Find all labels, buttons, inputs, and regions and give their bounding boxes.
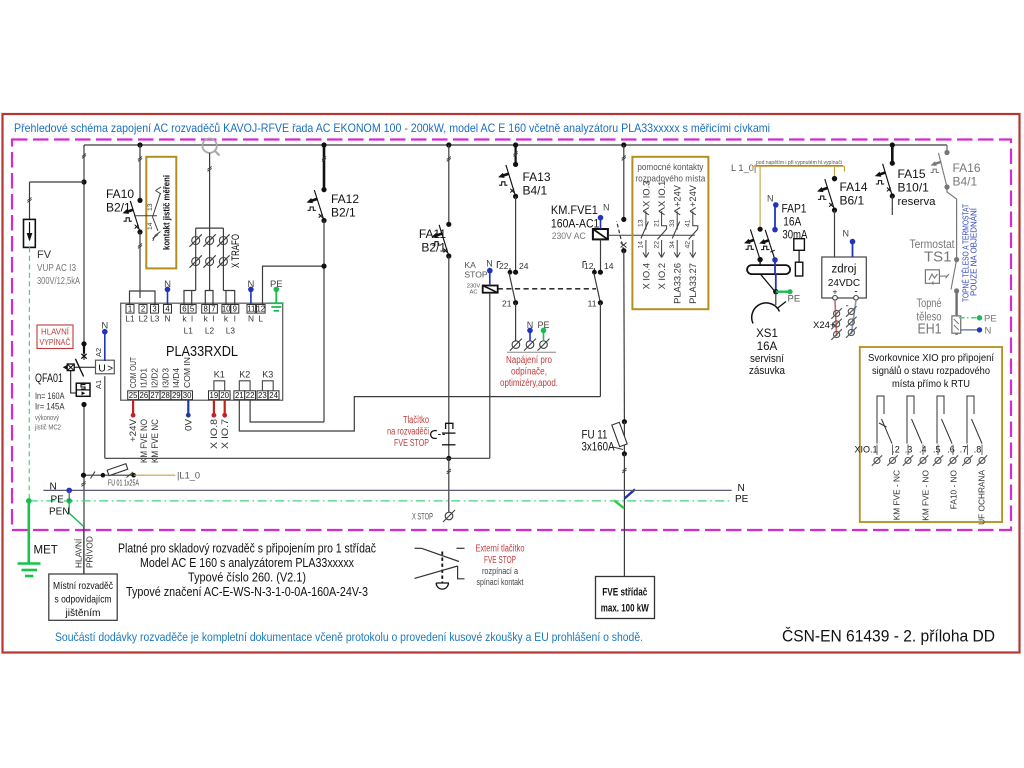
terminal row PLA33 bottom (pins 25-30) xyxy=(128,391,193,400)
mechanical link KA to contacts (dashed) xyxy=(498,288,596,290)
svg-text:27: 27 xyxy=(150,391,159,400)
svg-text:L2: L2 xyxy=(205,326,215,336)
contact XIO 4 xyxy=(967,396,982,444)
pin labels L1 L2 L3 (CT inputs) xyxy=(184,326,236,336)
svg-text:reserva: reserva xyxy=(898,196,937,208)
boundary of switchboard (magenta dashed) xyxy=(12,140,1011,531)
wire PE tap to inverter (green) xyxy=(614,500,624,508)
svg-text:.2: .2 xyxy=(892,445,900,455)
svg-text:FA16: FA16 xyxy=(953,161,981,175)
svg-text:KM FVE NC: KM FVE NC xyxy=(150,419,161,463)
wire 0V from pin 30 xyxy=(187,400,189,413)
svg-text:6: 6 xyxy=(182,305,186,314)
heating element EH1 xyxy=(952,316,961,333)
svg-text:34: 34 xyxy=(669,241,676,249)
wire N to FAP1 xyxy=(774,205,776,230)
pin labels COM OUT I/O xyxy=(129,357,192,388)
svg-text:B2/1: B2/1 xyxy=(331,206,356,220)
svg-text:FA12: FA12 xyxy=(331,192,359,206)
external pushbutton FVE STOP symbol xyxy=(415,547,422,549)
svg-text:X TRAFO: X TRAFO xyxy=(230,234,242,268)
svg-text:24: 24 xyxy=(269,391,278,400)
svg-text:L2: L2 xyxy=(139,314,149,324)
wire KM coil to contact 12-14 xyxy=(600,239,602,272)
svg-text:4: 4 xyxy=(165,305,170,314)
contact TS1 xyxy=(951,260,957,290)
wire L1_0 feeder (olive) xyxy=(753,165,845,167)
svg-text:HLAVNÍ: HLAVNÍ xyxy=(41,327,70,337)
wire KA11 down xyxy=(599,303,601,397)
power supply zdroj 24VDC xyxy=(822,257,867,298)
wire N to KM coil xyxy=(600,218,602,229)
node N KA xyxy=(487,268,493,274)
wire FV horizontal xyxy=(30,181,85,183)
svg-text:KA: KA xyxy=(464,260,476,270)
svg-text:PEN: PEN xyxy=(49,507,70,518)
svg-text:X IO.2: X IO.2 xyxy=(657,263,667,289)
svg-text:13: 13 xyxy=(147,203,154,211)
svg-text:X IO.3: X IO.3 xyxy=(641,181,651,207)
svg-text:X STOP: X STOP xyxy=(412,512,433,522)
svg-text:30mA: 30mA xyxy=(782,230,807,242)
svg-text:L1: L1 xyxy=(125,314,135,324)
socket XS1 xyxy=(752,303,780,324)
wire FVE-STOP chain xyxy=(105,457,490,459)
svg-text:KM FVE - NC: KM FVE - NC xyxy=(892,470,902,520)
svg-text:23: 23 xyxy=(258,391,267,400)
node N split xyxy=(66,488,72,494)
node N terminal 4 xyxy=(165,287,171,293)
label napajeni pro odpinace optimizery xyxy=(507,351,556,353)
aux contact 41-42 xyxy=(685,184,699,304)
svg-text:Ir= 145A: Ir= 145A xyxy=(35,402,65,412)
ground PE at terminal 12 xyxy=(275,289,277,303)
svg-text:PE: PE xyxy=(984,314,997,325)
svg-text:PLA33RXDL: PLA33RXDL xyxy=(166,344,238,360)
svg-text:N: N xyxy=(985,326,992,337)
svg-text:2: 2 xyxy=(141,305,145,314)
drawing frame xyxy=(3,114,1020,653)
wire KA coil to FVE-STOP node xyxy=(489,293,491,459)
svg-text:K1: K1 xyxy=(214,370,225,380)
relay output K3 xyxy=(262,381,273,391)
svg-text:FU 01 1x25A: FU 01 1x25A xyxy=(108,479,140,488)
svg-text:na rozvaděči: na rozvaděči xyxy=(387,427,429,438)
wire L1_0 to FAP1 xyxy=(759,166,761,226)
wire CT bracket xyxy=(196,227,224,229)
svg-text:41: 41 xyxy=(685,219,692,227)
node PE FV xyxy=(26,498,32,504)
svg-text:B10/1: B10/1 xyxy=(898,181,930,195)
contact XIO 2 xyxy=(907,396,922,444)
svg-text:FA15: FA15 xyxy=(898,167,926,181)
svg-text:FA10: FA10 xyxy=(106,187,134,201)
svg-text:QFA01: QFA01 xyxy=(35,373,63,385)
svg-text:HLAVNÍ: HLAVNÍ xyxy=(74,538,84,568)
svg-text:.5: .5 xyxy=(933,445,941,455)
svg-text:L1: L1 xyxy=(184,326,194,336)
undervoltage release U> xyxy=(96,360,115,374)
svg-text:13: 13 xyxy=(638,219,645,227)
svg-text:N: N xyxy=(486,259,493,269)
svg-text:230V AC: 230V AC xyxy=(552,231,586,241)
wire KA21 to napajeni xyxy=(515,303,517,342)
svg-text:21: 21 xyxy=(653,219,660,227)
svg-text:COM OUT: COM OUT xyxy=(129,357,138,388)
svg-text:Topné: Topné xyxy=(917,298,942,310)
svg-text:VYPÍNAČ: VYPÍNAČ xyxy=(40,337,71,347)
svg-text:U: U xyxy=(98,363,106,375)
wire PEN link xyxy=(68,490,70,501)
svg-text:FA11: FA11 xyxy=(419,227,446,241)
aux contact 33-34 xyxy=(669,184,683,304)
svg-text:zásuvka: zásuvka xyxy=(749,365,786,377)
svg-text:FV: FV xyxy=(37,249,52,261)
aux contact 13-14 xyxy=(638,181,652,290)
wire bracket CT L2 to terminals xyxy=(205,291,213,305)
svg-text:B6/1: B6/1 xyxy=(840,194,865,208)
svg-text:|L1_0: |L1_0 xyxy=(177,471,200,481)
node FVE-STOP junction xyxy=(446,456,451,461)
wire FV branch vertical xyxy=(83,145,85,360)
svg-text:l: l xyxy=(191,314,193,324)
svg-text:X IO.4: X IO.4 xyxy=(641,263,651,289)
svg-text:ČSN-EN 61439 - 2. příloha DD: ČSN-EN 61439 - 2. příloha DD xyxy=(782,627,995,646)
aux contact 21-22 xyxy=(653,181,667,290)
svg-text:N: N xyxy=(50,482,57,493)
wire to socket XS1 xyxy=(775,292,777,305)
svg-text:kontakt jistič měřeni: kontakt jistič měřeni xyxy=(162,175,172,250)
svg-text:12: 12 xyxy=(584,261,594,271)
relay output K1 xyxy=(214,381,225,391)
svg-text:rozpínací a: rozpínací a xyxy=(482,566,518,576)
node bus-FV xyxy=(137,142,142,147)
rcd FAP1 xyxy=(758,227,763,232)
node bus-FA12 xyxy=(321,142,326,147)
wire N to terminal 4 xyxy=(167,289,169,304)
svg-text:Externí tlačítko: Externí tlačítko xyxy=(476,544,525,555)
svg-text:Místní rozvaděč: Místní rozvaděč xyxy=(53,581,113,592)
node N U> xyxy=(102,329,108,335)
wire bracket CT L3 to terminals xyxy=(226,291,235,305)
wire L1_0 to FA14 xyxy=(834,166,836,178)
wire HLAVNI PRIVOD xyxy=(83,527,85,574)
circuit breaker QFA01 xyxy=(81,341,86,346)
svg-text:In= 160A: In= 160A xyxy=(35,391,65,401)
svg-text:PE: PE xyxy=(735,494,749,505)
current transformer X TRAFO L1 xyxy=(192,237,200,245)
wire bus PE (green dash-dot) xyxy=(29,500,732,502)
svg-text:MET: MET xyxy=(34,545,58,557)
svg-text:KM FVE - NO: KM FVE - NO xyxy=(921,469,931,520)
svg-text:19: 19 xyxy=(210,391,219,400)
wire N to U> (blue) xyxy=(104,332,106,361)
svg-text:EH1: EH1 xyxy=(918,321,942,338)
svg-text:Tlačítko: Tlačítko xyxy=(403,415,429,426)
wire PE to EH1 xyxy=(959,317,977,319)
svg-text:zdroj: zdroj xyxy=(832,264,857,276)
svg-text:PLA33.27: PLA33.27 xyxy=(688,263,698,304)
svg-text:29: 29 xyxy=(172,391,181,400)
svg-text:výkonový: výkonový xyxy=(35,413,59,422)
changeover contact KA 12-14 xyxy=(583,262,586,269)
surge arrester FV xyxy=(24,219,36,247)
svg-text:A2: A2 xyxy=(94,348,103,357)
svg-text:I2/D2: I2/D2 xyxy=(151,367,160,388)
svg-text:PŘÍVOD: PŘÍVOD xyxy=(85,536,95,568)
svg-text:L3: L3 xyxy=(150,314,160,324)
node N KM coil xyxy=(598,215,604,221)
circuit breaker FA13 xyxy=(514,145,516,164)
wire FA11 to X STOP terminal xyxy=(448,458,450,512)
analyzer PLA33RXDL body xyxy=(121,303,283,400)
svg-text:KM FVE NO: KM FVE NO xyxy=(139,419,150,463)
svg-text:XIO.1: XIO.1 xyxy=(854,445,877,455)
svg-text:X IO.8: X IO.8 xyxy=(209,419,220,449)
node bus-KM xyxy=(621,142,626,147)
contactor KM.FVE1 main contact xyxy=(623,145,625,219)
node N FAP1 xyxy=(773,202,779,208)
wire FA14 to zdroj xyxy=(834,210,836,257)
current transformer X TRAFO L3 xyxy=(219,237,227,245)
label HLAVNI VYPINAC xyxy=(37,325,73,349)
svg-text:FVE STOP: FVE STOP xyxy=(484,555,516,566)
terminal row PLA33 K1 K2 K3 (pins 19-24) xyxy=(209,391,280,400)
terminal block XIO box xyxy=(860,347,1002,522)
svg-text:optimizéry,apod.: optimizéry,apod. xyxy=(500,378,558,389)
svg-text:spínací kontakt: spínací kontakt xyxy=(477,577,524,587)
terminal labels XIO.1-.8 xyxy=(854,445,981,455)
svg-text:K2: K2 xyxy=(239,370,250,380)
node bus-FA13 xyxy=(513,142,518,147)
svg-text:24: 24 xyxy=(519,261,529,271)
svg-text:B4/1: B4/1 xyxy=(523,184,548,198)
node PE split xyxy=(66,498,72,504)
relay output K2 xyxy=(239,381,250,391)
svg-text:42: 42 xyxy=(685,241,692,249)
wire KM to FU11 xyxy=(623,251,626,422)
svg-text:PE: PE xyxy=(51,495,65,506)
svg-text:XS1: XS1 xyxy=(756,328,778,340)
node N zdroj xyxy=(850,239,856,245)
wire +24V from pin 25 xyxy=(132,400,134,413)
svg-text:FVE střídač: FVE střídač xyxy=(602,587,647,599)
node N terminal 11 xyxy=(248,287,254,293)
svg-text:I3/D3: I3/D3 xyxy=(161,367,170,388)
wire X IO.8 from pin 19 xyxy=(213,400,215,413)
svg-text:11: 11 xyxy=(588,299,597,309)
wire FA16 to thermostat xyxy=(947,187,957,260)
wire pin21 to contact 11 of KA xyxy=(239,397,600,431)
svg-text:22: 22 xyxy=(653,241,660,249)
grid connection point symbol xyxy=(202,139,216,153)
svg-text:VUP AC I3: VUP AC I3 xyxy=(37,263,76,274)
svg-text:.8: .8 xyxy=(974,445,982,455)
circuit breaker FA12 xyxy=(323,145,326,190)
terminal row PLA33 top (pins 1-12) xyxy=(126,305,265,314)
svg-text:pod napětím i při vypnutém hl.: pod napětím i při vypnutém hl.vypínači xyxy=(756,160,842,166)
node N napajeni xyxy=(527,328,533,334)
svg-text:odpínače,: odpínače, xyxy=(511,367,547,378)
wire +24V out xyxy=(835,300,837,336)
svg-text:pomocné kontakty: pomocné kontakty xyxy=(637,162,703,172)
svg-text:12: 12 xyxy=(256,305,265,314)
svg-text:.7: .7 xyxy=(960,445,968,455)
svg-text:>: > xyxy=(107,364,113,375)
current transformer X TRAFO L2 xyxy=(206,237,214,245)
wire measurement feeder xyxy=(209,153,211,228)
svg-text:AC: AC xyxy=(469,290,477,296)
svg-text:300V/12,5kA: 300V/12,5kA xyxy=(37,276,80,287)
svg-text:K3: K3 xyxy=(262,370,273,380)
local switchboard box xyxy=(49,574,117,620)
svg-text:Platné pro skladový rozvaděč s: Platné pro skladový rozvaděč s připojení… xyxy=(118,542,376,556)
svg-text:22: 22 xyxy=(499,261,509,271)
svg-text:.3: .3 xyxy=(905,445,913,455)
svg-text:B2/1: B2/1 xyxy=(106,201,131,215)
svg-text:11: 11 xyxy=(247,305,255,314)
svg-text:jištěním: jištěním xyxy=(64,608,100,619)
svg-text:PE: PE xyxy=(788,294,801,305)
svg-text:X IO.1: X IO.1 xyxy=(657,181,667,207)
fuse FU11 xyxy=(622,419,627,424)
circuit breaker FA11 xyxy=(448,145,450,224)
svg-text:PLA33.26: PLA33.26 xyxy=(673,263,683,304)
node bus-FA11 xyxy=(446,142,451,147)
inverter FVE stridac box xyxy=(596,577,655,619)
fuse FU01 xyxy=(84,474,134,476)
svg-text:FVE STOP: FVE STOP xyxy=(394,438,429,449)
wire A1 to FVE-STOP node xyxy=(104,376,106,458)
svg-text:10: 10 xyxy=(222,305,231,314)
svg-text:I1/D1: I1/D1 xyxy=(140,367,149,388)
contact XIO 1 xyxy=(877,396,892,444)
wire N to KA coil xyxy=(489,271,491,286)
node PE napajeni xyxy=(541,328,547,334)
wire 0V out xyxy=(851,300,856,334)
svg-text:N: N xyxy=(738,483,745,494)
wire FAP1 to socket xyxy=(774,260,776,274)
circuit breaker FA16 xyxy=(946,145,948,153)
node FA12-PLA12 tap xyxy=(321,264,326,269)
svg-text:N: N xyxy=(843,229,850,239)
svg-text:s odpovídajícm: s odpovídajícm xyxy=(55,595,112,606)
svg-text:I4/D4: I4/D4 xyxy=(172,367,181,388)
aux contact of FA10 xyxy=(134,215,157,217)
wire N to EH1 xyxy=(961,329,977,331)
ground MET xyxy=(27,501,30,563)
wire N to terminal 11 xyxy=(250,289,252,304)
svg-text:TS1: TS1 xyxy=(924,249,952,266)
svg-text:X24+: X24+ xyxy=(813,320,836,331)
svg-text:1: 1 xyxy=(128,305,132,314)
circuit breaker FA15 xyxy=(891,145,894,163)
svg-text:Typové číslo 260. (V2.1): Typové číslo 260. (V2.1) xyxy=(188,571,306,585)
svg-text:21: 21 xyxy=(502,299,512,309)
circuit breaker FA10 xyxy=(139,145,141,200)
svg-text:N: N xyxy=(165,314,171,324)
node PE terminal 12 xyxy=(274,287,280,293)
svg-text:+24V: +24V xyxy=(673,184,683,207)
wire bracket CT L1 to terminals xyxy=(184,291,196,305)
svg-text:+24V: +24V xyxy=(688,184,698,207)
svg-text:FA13: FA13 xyxy=(523,170,551,184)
node FV-tap xyxy=(81,179,86,184)
svg-text:B2/1: B2/1 xyxy=(421,241,446,255)
svg-text:3: 3 xyxy=(152,305,156,314)
svg-text:9: 9 xyxy=(233,305,237,314)
wire FU11 to inverter xyxy=(623,454,625,577)
svg-text:signálů o stavu rozpadového: signálů o stavu rozpadového xyxy=(872,365,990,377)
svg-text:N: N xyxy=(248,314,254,324)
svg-text:Model AC E 160 s analyzátorem: Model AC E 160 s analyzátorem PLA33xxxxx xyxy=(140,556,355,570)
svg-text:.6: .6 xyxy=(947,445,955,455)
svg-text:26: 26 xyxy=(140,391,149,400)
svg-text:X IO.7: X IO.7 xyxy=(220,419,231,449)
terminals napajeni pro odpinace xyxy=(512,341,520,349)
auxiliary contacts box - pomocne kontakty rozpadoveho mista xyxy=(632,157,708,309)
wire main top bus xyxy=(84,144,947,146)
wire pin22 to FA12 xyxy=(250,400,324,422)
wire N to zdroj xyxy=(852,242,854,257)
svg-text:0V: 0V xyxy=(183,418,194,431)
svg-text:14: 14 xyxy=(604,261,614,271)
svg-text:-: - xyxy=(846,301,849,312)
svg-text:16A: 16A xyxy=(783,217,801,229)
svg-text:5: 5 xyxy=(190,305,195,314)
svg-text:22: 22 xyxy=(246,391,255,400)
terminals XIO xyxy=(872,445,987,466)
svg-text:UF OCHRANA: UF OCHRANA xyxy=(977,470,987,525)
contact XIO 3 xyxy=(937,396,952,444)
wire bridge terminals 1-3 xyxy=(130,291,156,305)
svg-text:L3: L3 xyxy=(226,326,236,336)
svg-text:Přehledové schéma zapojení AC: Přehledové schéma zapojení AC rozvaděčů … xyxy=(14,122,770,135)
wire TS1 to heater xyxy=(955,291,957,335)
node PE socket xyxy=(773,289,778,294)
svg-text:jistič MC2: jistič MC2 xyxy=(34,423,61,432)
svg-text:l: l xyxy=(234,314,236,324)
svg-text:Napájení pro: Napájení pro xyxy=(506,355,552,366)
wire X IO.7 from pin 20 xyxy=(224,400,226,413)
node bus-FA15 xyxy=(890,142,895,147)
circuit breaker FA14 xyxy=(832,176,837,181)
svg-text:Typové značení AC-E-WS-N-3-1-0: Typové značení AC-E-WS-N-3-1-0-0A-160A-2… xyxy=(126,585,368,599)
svg-text:POUZE NA OBJEDNÁNÍ: POUZE NA OBJEDNÁNÍ xyxy=(969,207,979,296)
svg-text:COM IN: COM IN xyxy=(183,357,192,388)
terminals X24+ xyxy=(834,310,840,316)
wire FV stub xyxy=(29,182,31,219)
svg-text:A1: A1 xyxy=(94,380,103,389)
terminal X STOP xyxy=(445,512,453,520)
svg-text:L: L xyxy=(258,314,263,324)
svg-text:30: 30 xyxy=(183,391,192,400)
svg-text:7: 7 xyxy=(211,305,215,314)
auxiliary contact box - kontakt jistic mereni xyxy=(146,157,176,269)
svg-text:N: N xyxy=(767,194,774,204)
svg-text:25: 25 xyxy=(129,391,138,400)
svg-text:servisní: servisní xyxy=(750,353,784,365)
svg-text:max. 100 kW: max. 100 kW xyxy=(601,603,649,615)
svg-text:STOP: STOP xyxy=(464,270,488,280)
svg-text:14: 14 xyxy=(147,222,154,230)
svg-text:8: 8 xyxy=(204,305,208,314)
changeover contact KA 22-24 xyxy=(497,262,500,269)
svg-text:20: 20 xyxy=(220,391,229,400)
wire bus N xyxy=(43,489,731,491)
svg-text:+24V: +24V xyxy=(128,418,139,442)
svg-text:B4/1: B4/1 xyxy=(953,175,978,189)
